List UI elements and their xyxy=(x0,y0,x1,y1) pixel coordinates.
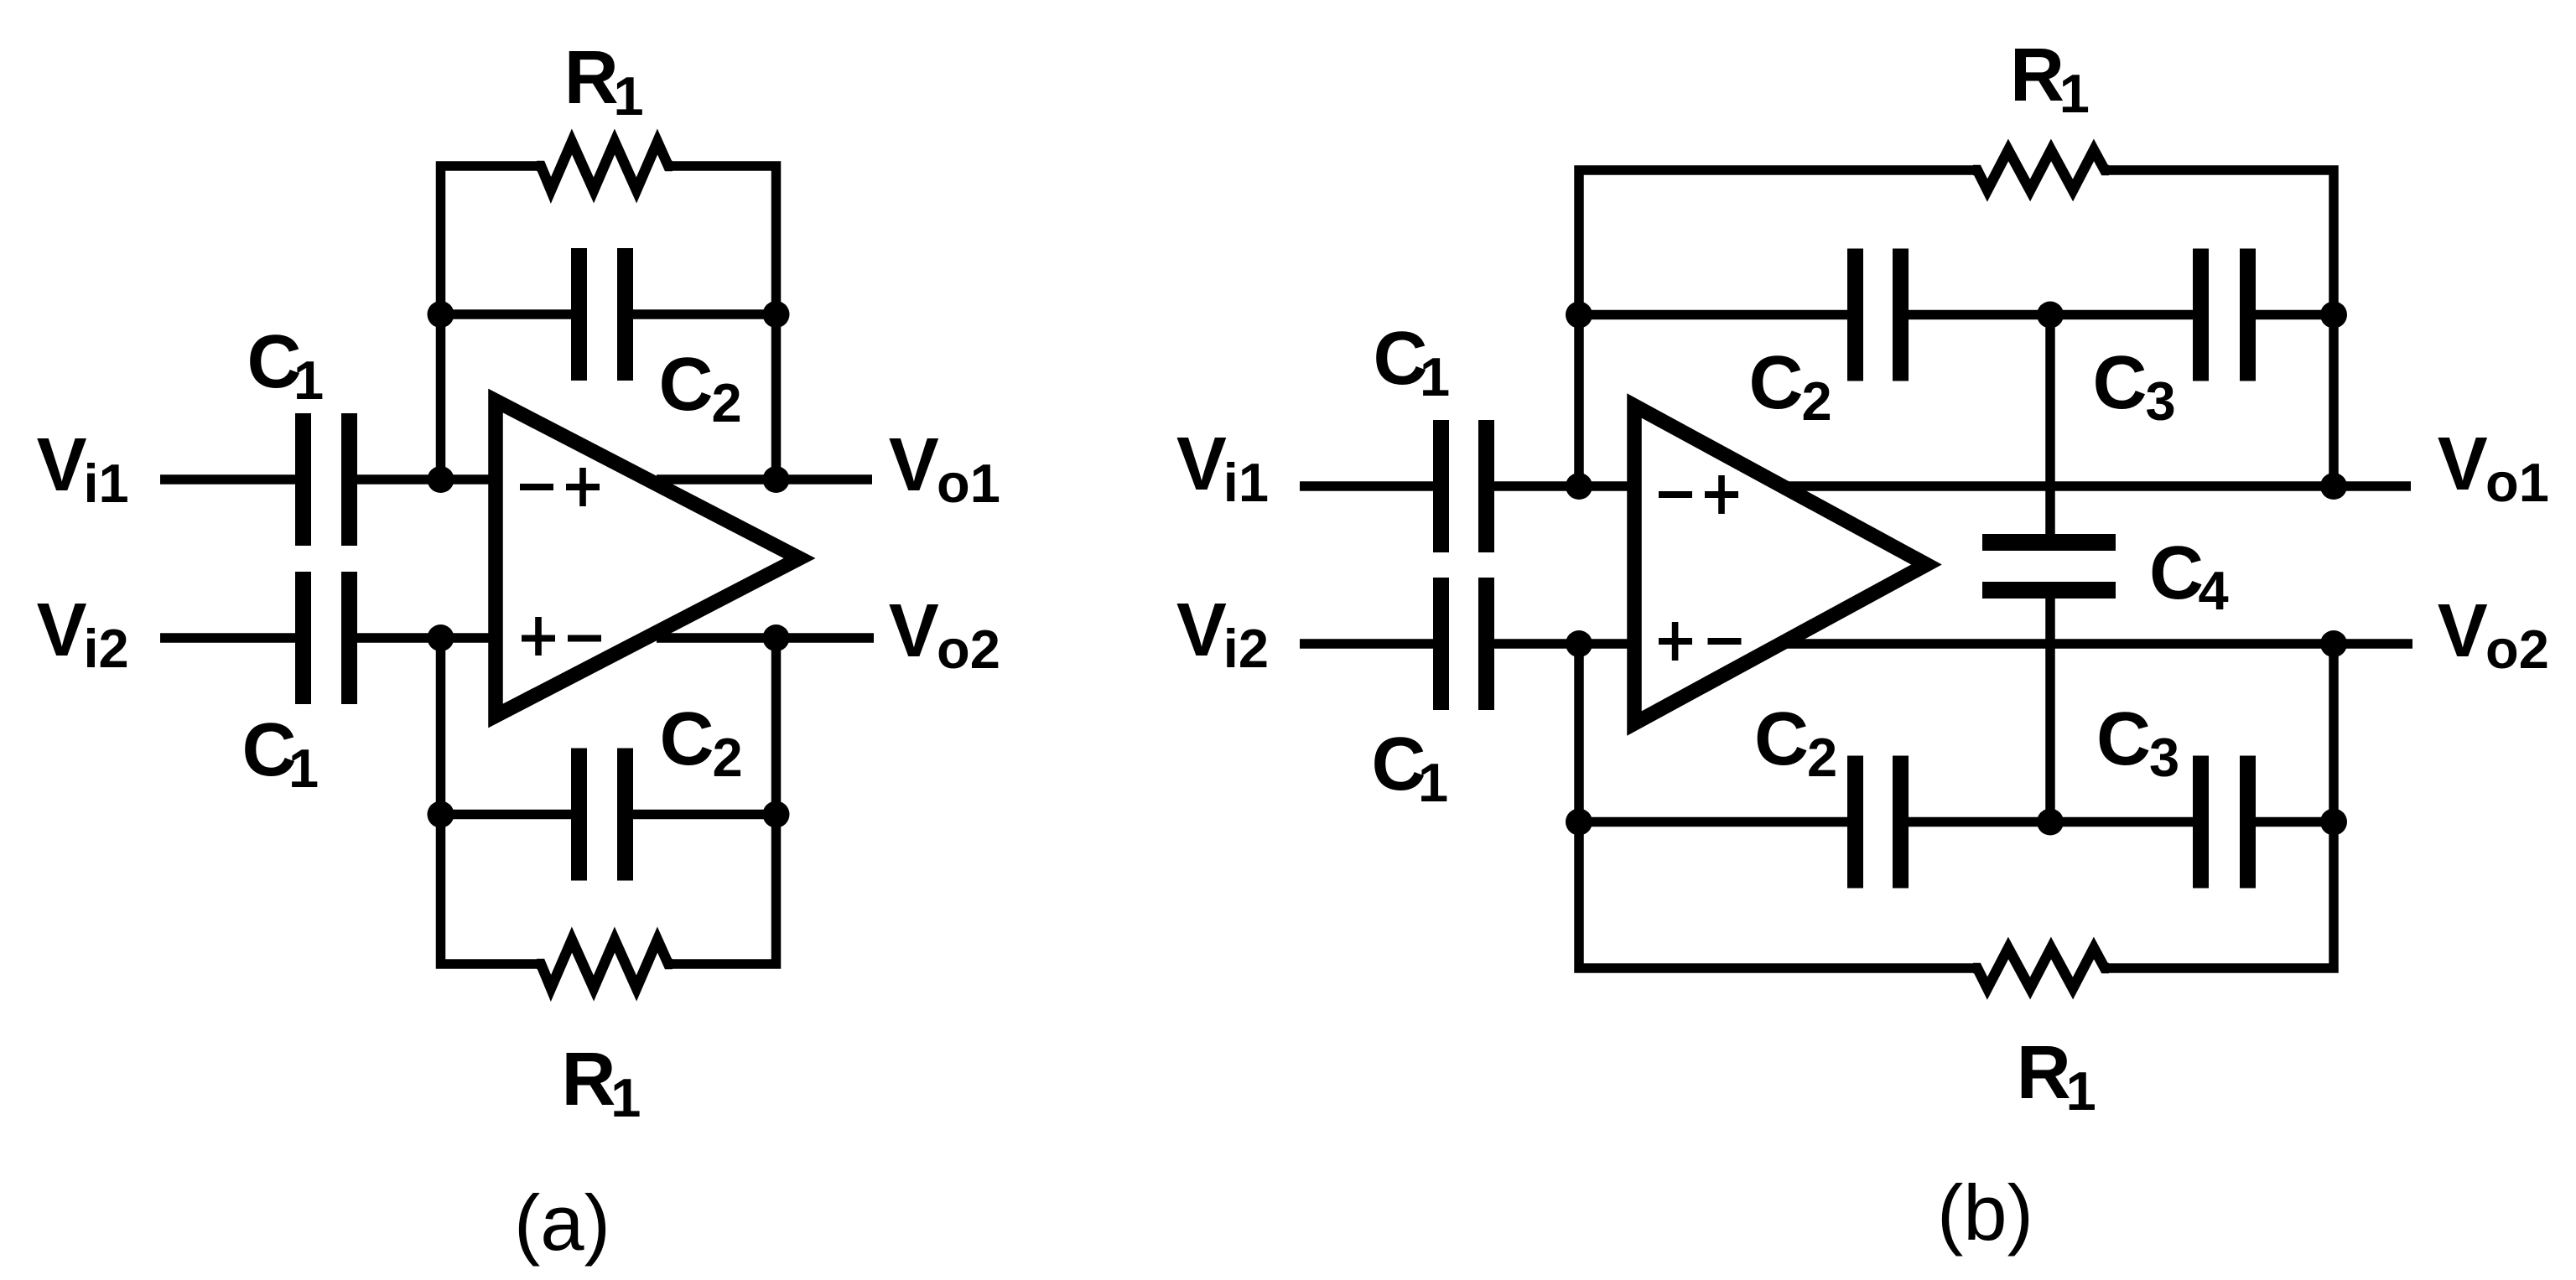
wire Vi1 input (b) xyxy=(1300,481,1634,491)
capacitor C1 (b bottom) xyxy=(1433,578,1494,710)
capacitor C1 (b top) xyxy=(1433,420,1494,552)
svg-text:i2: i2 xyxy=(1223,618,1269,679)
resistor R1 (b top) label xyxy=(2010,34,2090,124)
label C1 (b bottom) xyxy=(1372,723,1449,813)
svg-text:V: V xyxy=(2438,422,2488,506)
node dot C row middle (b bottom) xyxy=(2037,809,2064,836)
wire Vi2 input (b) xyxy=(1300,639,1634,649)
capacitor C1 (a bottom) xyxy=(295,572,357,704)
svg-text:R: R xyxy=(562,1038,616,1122)
node dot C row right (b top) xyxy=(2320,302,2347,329)
svg-text:V: V xyxy=(1176,588,1227,672)
op-amp U2 input polarity bottom (plus minus) xyxy=(1659,622,1742,661)
node dot C row left (b bottom) xyxy=(1566,809,1592,836)
node dot Vo1 (a) xyxy=(763,466,790,493)
wire Vo2 output (a) xyxy=(657,633,874,643)
svg-text:i1: i1 xyxy=(1223,452,1269,513)
node dot C2 row right (a bottom) xyxy=(763,801,790,828)
capacitor C2 (a bottom) xyxy=(571,749,633,881)
svg-text:1: 1 xyxy=(1420,346,1450,407)
label C2 (a top) xyxy=(659,343,742,433)
label Vi2 (a) xyxy=(37,588,129,679)
capacitor C2 (a top) xyxy=(571,248,633,381)
op-amp U1 input polarity top (minus plus) xyxy=(520,468,600,506)
label Vo2 (b) xyxy=(2438,589,2549,680)
node dot Vi1 (a) xyxy=(428,466,454,493)
label C1 (a bottom) xyxy=(242,708,319,799)
svg-text:o2: o2 xyxy=(937,619,1000,680)
svg-text:C: C xyxy=(2149,531,2204,615)
svg-text:V: V xyxy=(889,423,939,507)
label C2 (a bottom) xyxy=(660,697,743,788)
wire C2 C3 row (b top) xyxy=(1579,310,2334,320)
node dot C2 row left (a top) xyxy=(428,301,454,328)
svg-text:V: V xyxy=(37,423,87,507)
op-amp U1 (a) xyxy=(496,401,800,716)
capacitor C3 (b top) xyxy=(2193,249,2256,381)
svg-text:1: 1 xyxy=(2059,63,2090,124)
node dot Vo1 (b) xyxy=(2320,473,2347,500)
wire Vi1 input (a) xyxy=(160,474,496,485)
svg-text:R: R xyxy=(2017,1031,2071,1115)
capacitor C4 (b) xyxy=(1982,534,2116,599)
svg-text:C: C xyxy=(1754,697,1809,781)
svg-text:V: V xyxy=(1176,422,1227,506)
capacitor C1 (a top) xyxy=(295,413,357,546)
label C1 (b top) xyxy=(1374,317,1451,407)
label Vo1 (a) xyxy=(889,423,1000,514)
wire Vo1 output (b) xyxy=(1784,481,2411,491)
svg-text:3: 3 xyxy=(2146,371,2176,432)
op-amp U1 input polarity bottom (plus minus) xyxy=(522,617,601,656)
capacitor C2 (b bottom) xyxy=(1847,756,1909,889)
wire C2 C3 row (b bottom) xyxy=(1579,817,2334,827)
wire bottom feedback loop with resistor R1 (a bottom) xyxy=(441,638,776,964)
svg-text:(b): (b) xyxy=(1937,1169,2033,1257)
svg-text:C: C xyxy=(1749,341,1804,425)
svg-text:o1: o1 xyxy=(2485,452,2549,513)
svg-text:1: 1 xyxy=(2066,1060,2096,1122)
wire C4 branch vertical (b) xyxy=(2045,315,2055,822)
wire Vo1 output (a) xyxy=(657,474,872,485)
wire C2 row (a bottom) xyxy=(441,810,776,820)
svg-text:(a): (a) xyxy=(514,1179,610,1267)
label Vi1 (b) xyxy=(1176,422,1269,513)
wire top feedback loop with resistor R1 (a top) xyxy=(441,166,776,479)
node dot C row left (b top) xyxy=(1566,302,1592,329)
svg-text:1: 1 xyxy=(614,65,644,127)
wire top feedback loop with resistor R1 (b top) xyxy=(1579,170,2334,486)
node dot C row middle (b top) xyxy=(2037,302,2064,329)
svg-text:3: 3 xyxy=(2149,727,2179,788)
wire Vo2 output (b) xyxy=(1785,639,2412,649)
svg-text:i1: i1 xyxy=(84,453,129,514)
resistor R1 (a top) zigzag xyxy=(537,142,673,190)
svg-text:C: C xyxy=(660,697,714,781)
node dot Vi2 (a) xyxy=(428,624,454,651)
wire bottom feedback loop with resistor R1 (b bottom) xyxy=(1579,644,2334,968)
wire C2 row (a top) xyxy=(441,309,776,319)
svg-text:2: 2 xyxy=(713,727,743,788)
op-amp U2 input polarity top (minus plus) xyxy=(1659,475,1738,514)
svg-text:2: 2 xyxy=(712,372,742,433)
svg-text:R: R xyxy=(2010,34,2064,117)
op-amp U2 (b) xyxy=(1634,406,1927,723)
svg-text:1: 1 xyxy=(293,350,324,411)
svg-text:V: V xyxy=(889,589,939,673)
label C1 (a top) xyxy=(247,320,325,411)
label Vi1 (a) xyxy=(37,423,129,514)
svg-text:o1: o1 xyxy=(937,453,1000,514)
resistor R1 (a bottom) label xyxy=(562,1038,641,1128)
resistor R1 (a top) label xyxy=(564,36,644,127)
svg-text:V: V xyxy=(2438,589,2488,673)
resistor R1 (b bottom) label xyxy=(2017,1031,2096,1122)
label C2 (b bottom) xyxy=(1754,697,1837,788)
label Vi2 (b) xyxy=(1176,588,1269,679)
node dot Vo2 (a) xyxy=(763,624,790,651)
node dot C2 row left (a bottom) xyxy=(428,801,454,828)
svg-text:C: C xyxy=(2093,341,2148,425)
label C2 (b top) xyxy=(1749,341,1832,432)
capacitor C2 (b top) xyxy=(1847,249,1909,381)
node dot Vo2 (b) xyxy=(2320,630,2347,657)
svg-text:V: V xyxy=(37,588,87,672)
svg-text:1: 1 xyxy=(288,738,319,799)
svg-text:1: 1 xyxy=(1418,752,1448,813)
node dot C2 row right (a top) xyxy=(763,301,790,328)
node dot Vi2 (b) xyxy=(1566,630,1592,657)
svg-text:2: 2 xyxy=(1807,727,1837,788)
node dot Vi1 (b) xyxy=(1566,473,1592,500)
label C3 (b top) xyxy=(2093,341,2176,432)
svg-text:2: 2 xyxy=(1802,371,1832,432)
label C3 (b bottom) xyxy=(2096,697,2179,788)
label Vo1 (b) xyxy=(2438,422,2549,513)
svg-text:4: 4 xyxy=(2199,560,2229,621)
resistor R1 (b top) zigzag xyxy=(1973,150,2109,190)
label Vo2 (a) xyxy=(889,589,1000,680)
svg-text:C: C xyxy=(659,343,714,427)
capacitor C3 (b bottom) xyxy=(2193,756,2256,889)
svg-text:1: 1 xyxy=(610,1067,641,1128)
resistor R1 (a bottom) zigzag xyxy=(537,940,673,988)
svg-text:o2: o2 xyxy=(2485,619,2549,680)
resistor R1 (b bottom) zigzag xyxy=(1973,948,2109,988)
svg-text:R: R xyxy=(564,36,619,120)
node dot C row right (b bottom) xyxy=(2320,809,2347,836)
svg-text:i2: i2 xyxy=(84,618,129,679)
svg-text:C: C xyxy=(2096,697,2151,781)
wire Vi2 input (a) xyxy=(160,633,496,643)
label C4 (b) xyxy=(2149,531,2229,621)
